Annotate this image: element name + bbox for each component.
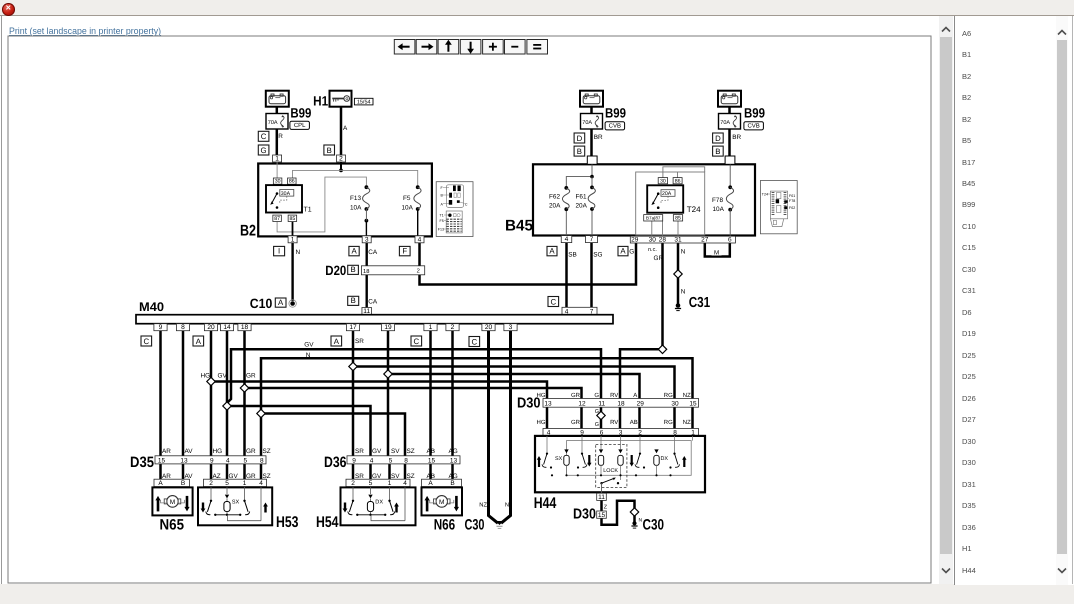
svg-text:27: 27: [701, 237, 709, 244]
svg-text:15: 15: [598, 512, 606, 519]
relay T24: [647, 185, 683, 212]
svg-text:GR: GR: [246, 373, 256, 380]
svg-text:HG: HG: [201, 373, 211, 380]
svg-text:5: 5: [225, 480, 229, 487]
wire CA (B2 pin 3 through D20 pin 18 to M40 pin 11): [366, 243, 368, 308]
connector marker A: [349, 246, 359, 255]
svg-text:B99: B99: [605, 105, 626, 120]
wire M loop (B45 pin 27 to pin 6): [705, 243, 730, 257]
T24 relay sub-box and wiring: [636, 167, 705, 236]
svg-text:8: 8: [181, 324, 185, 331]
connector marker C: [258, 131, 269, 141]
relay T24 pin 30: [658, 178, 667, 185]
main vertical scrollbar: [939, 16, 953, 584]
svg-text:5: 5: [369, 480, 373, 487]
wire (D36 to actuator, x=452.5): [451, 464, 454, 488]
svg-text:n.c.: n.c.: [648, 247, 657, 253]
wire RG (D30 to H44): [673, 407, 676, 429]
svg-text:B: B: [715, 147, 720, 156]
svg-text:GR: GR: [246, 448, 256, 455]
connector marker F: [399, 246, 410, 255]
svg-text:F: F: [402, 247, 407, 256]
wire GR (M40 pin 18 to D35 pin 5): [243, 331, 246, 456]
svg-text:20: 20: [485, 324, 493, 331]
svg-text:70A: 70A: [582, 120, 592, 126]
connector D30 row: [543, 399, 699, 408]
svg-text:18: 18: [617, 400, 625, 407]
svg-text:A: A: [343, 125, 348, 132]
svg-text:D20: D20: [325, 263, 346, 278]
svg-text:F13: F13: [350, 195, 361, 202]
svg-text:1: 1: [388, 480, 392, 487]
svg-text:HG: HG: [537, 419, 546, 426]
svg-text:5: 5: [389, 457, 393, 464]
svg-text:SB: SB: [568, 252, 577, 259]
svg-text:D30: D30: [573, 507, 596, 523]
svg-text:C: C: [550, 297, 556, 306]
relay T1 pin 30: [273, 178, 282, 185]
window switch H53: [198, 487, 272, 525]
svg-text:31: 31: [674, 237, 682, 244]
connector marker I: [274, 246, 285, 255]
svg-text:C31: C31: [689, 295, 711, 311]
svg-text:AZ: AZ: [213, 473, 221, 480]
svg-text:SZ: SZ: [407, 473, 415, 480]
svg-text:A: A: [633, 392, 637, 399]
svg-text:14: 14: [223, 324, 231, 331]
svg-text:D: D: [577, 134, 583, 143]
svg-text:I: I: [278, 247, 280, 256]
N66 terminal strip A/B: [422, 479, 462, 487]
svg-text:13: 13: [180, 457, 188, 464]
svg-text:17: 17: [349, 324, 357, 331]
svg-text:2: 2: [209, 480, 213, 487]
junction pin19 bus: [384, 370, 392, 378]
svg-text:A: A: [351, 247, 357, 256]
wire (D35 to actuator, x=227): [226, 464, 229, 488]
svg-text:F78: F78: [712, 197, 723, 204]
svg-text:SX: SX: [555, 456, 563, 462]
svg-text:LOCK: LOCK: [603, 468, 618, 474]
svg-text:1: 1: [291, 236, 295, 243]
svg-text:RV: RV: [610, 392, 618, 399]
terminal 11 on M40 (from D20): [362, 308, 372, 316]
B45 top terminal notch right: [725, 156, 735, 164]
svg-text:NZ: NZ: [683, 419, 691, 426]
svg-text:SV: SV: [391, 448, 400, 455]
svg-text:H54: H54: [316, 514, 339, 531]
bottom gray strip: [0, 584, 1074, 604]
svg-text:4: 4: [259, 480, 263, 487]
svg-text:A: A: [620, 247, 626, 256]
wire (D35 to actuator, x=244.5): [243, 464, 246, 488]
svg-text:GV: GV: [372, 473, 382, 480]
svg-text:SZ: SZ: [407, 448, 415, 455]
svg-text:G: G: [595, 422, 599, 428]
svg-text:1: 1: [429, 324, 433, 331]
wire BR (B99 CVB left to B45): [590, 107, 593, 158]
svg-text:SZ: SZ: [263, 473, 271, 480]
connector marker D: [713, 133, 724, 143]
wire SG (B45 pin 7 to M40 pin 7): [590, 243, 593, 308]
svg-text:87: 87: [274, 216, 280, 222]
svg-text:H1: H1: [313, 94, 328, 109]
relay T1 pin 85: [288, 215, 297, 222]
net bus (GV diamond to D36 pin 4): [227, 406, 371, 456]
svg-text:CPL: CPL: [294, 122, 306, 129]
svg-text:85: 85: [675, 216, 681, 222]
wire Z (H44 pin 11 through D30 pin 15 to ground C30): [602, 500, 635, 525]
junction HG bus: [207, 377, 215, 385]
svg-text:15/54: 15/54: [357, 100, 371, 106]
wire SZ (D35 pin 8 to H53 pin 4): [260, 464, 263, 488]
svg-text:18: 18: [241, 324, 249, 331]
svg-text:N: N: [505, 503, 509, 509]
junction SR bus: [349, 362, 357, 370]
net bus (N diamond to D36 pin 8): [261, 414, 405, 456]
ground point C10: [290, 301, 295, 306]
svg-text:RV: RV: [610, 419, 618, 426]
svg-text:B: B: [450, 480, 454, 487]
svg-text:A: A: [196, 337, 202, 346]
svg-text:1: 1: [243, 480, 247, 487]
B2 bottom pin 1: [288, 236, 297, 244]
H53 terminal strip 2/5/1/4: [204, 479, 267, 487]
relay T24 pins B7a/87: [644, 215, 663, 221]
svg-text:10A: 10A: [402, 205, 414, 212]
svg-text:N: N: [681, 289, 686, 296]
svg-text:5: 5: [243, 457, 247, 464]
svg-text:C: C: [261, 132, 267, 141]
svg-text:AV: AV: [185, 473, 194, 480]
svg-text:M40: M40: [139, 300, 164, 314]
N65 terminal strip A/B: [154, 479, 190, 487]
title bar: [0, 0, 1074, 16]
svg-text:3: 3: [509, 324, 513, 331]
connector marker A: [331, 336, 342, 346]
svg-text:T1: T1: [440, 213, 444, 217]
svg-text:G: G: [594, 392, 599, 399]
terminal box 4/7 on M40: [562, 307, 597, 315]
M40 pin 2: [446, 324, 459, 332]
fuse 70A (B99 CVB left): [581, 114, 603, 130]
wire AB (M40 pin 1 to D36 pin 15): [429, 331, 432, 456]
svg-text:30: 30: [660, 178, 666, 184]
svg-text:F62: F62: [549, 194, 560, 201]
svg-text:HG: HG: [213, 448, 223, 455]
svg-text:29: 29: [631, 237, 639, 244]
wire N (M40/C pin 3 to ground C30): [501, 331, 510, 524]
svg-text:CA: CA: [368, 249, 378, 256]
svg-text:SV: SV: [391, 473, 400, 480]
svg-text:2: 2: [417, 268, 420, 275]
wire R (B99 fuse to B2 pin 1): [276, 107, 279, 156]
M40 pin 14: [220, 324, 233, 332]
ground stud C30 (H44): [632, 521, 636, 525]
svg-text:B2: B2: [240, 223, 256, 240]
svg-text:20A: 20A: [549, 203, 561, 210]
M40 pin 18: [238, 324, 251, 332]
svg-text:85: 85: [290, 216, 296, 222]
svg-text:N66: N66: [434, 517, 456, 534]
net GR bus (M40 pin 18 to D30 pin 12): [245, 388, 582, 399]
svg-text:13: 13: [450, 457, 458, 464]
wire BR (B99 CVB right to B45): [728, 107, 731, 158]
window left border: [1, 16, 2, 584]
svg-text:C30: C30: [465, 517, 485, 534]
wire (D36 to actuator, x=370.5): [369, 464, 372, 488]
svg-text:6: 6: [728, 237, 732, 244]
svg-text:F61: F61: [576, 194, 587, 201]
connector marker B: [348, 296, 359, 305]
svg-text:30: 30: [671, 400, 679, 407]
relay T24 pin 86: [673, 178, 682, 185]
connector marker G: [258, 145, 269, 155]
svg-text:4: 4: [418, 236, 422, 243]
M40 pin 9: [154, 324, 167, 332]
svg-text:4: 4: [403, 480, 407, 487]
right component list panel: [954, 16, 1074, 585]
svg-text:M: M: [170, 499, 175, 506]
M40 pin 1: [424, 324, 437, 332]
B2 internal wiring: [277, 162, 418, 236]
connector D35 row: [155, 456, 266, 465]
svg-text:A: A: [549, 247, 555, 256]
bus bar M40: [136, 315, 613, 324]
svg-text:B: B: [181, 480, 185, 487]
wire SB (B45 pin 4 to M40 pin 4): [565, 243, 568, 308]
svg-text:D: D: [715, 134, 721, 143]
svg-text:AR: AR: [162, 473, 171, 480]
connector marker C: [141, 336, 152, 346]
svg-text:A: A: [334, 337, 340, 346]
label CVB: [605, 122, 625, 130]
connector D30 pin 15: [597, 511, 607, 519]
connector H44 row: [543, 429, 699, 437]
svg-text:T24: T24: [762, 193, 768, 197]
B45 pin legend table: [760, 181, 797, 234]
net SR bus (M40 pin 17 to D30 pin 30): [353, 367, 675, 399]
svg-text:B99: B99: [744, 105, 765, 120]
svg-text:1: 1: [275, 156, 279, 163]
svg-text:4: 4: [370, 457, 374, 464]
svg-text:28: 28: [659, 237, 667, 244]
svg-text:F62: F62: [789, 206, 795, 210]
svg-text:29: 29: [637, 400, 645, 407]
toolbar buttons: [394, 40, 547, 55]
svg-text:GV: GV: [372, 448, 382, 455]
svg-text:SG: SG: [593, 252, 602, 259]
svg-text:GR: GR: [571, 392, 581, 399]
svg-text:N: N: [296, 249, 301, 256]
M40 pin 20: [482, 324, 495, 332]
svg-text:11: 11: [598, 400, 605, 407]
wire (B2 pin 4 through D20 pin 2 to B45 pin 29): [420, 243, 637, 285]
connector marker C (M40 4/7): [548, 297, 559, 307]
svg-text:GR: GR: [571, 419, 581, 426]
svg-text:C: C: [471, 337, 477, 346]
wire HG (M40 pin 20 to D35 pin 9): [210, 331, 213, 456]
H44 internals: [537, 436, 693, 493]
wire label M on loop: [712, 248, 722, 257]
svg-text:F5: F5: [403, 195, 411, 202]
svg-text:M: M: [439, 499, 444, 506]
svg-text:RG: RG: [664, 392, 673, 399]
wire HG (D30 to H44): [546, 407, 549, 429]
connector marker C: [411, 336, 422, 346]
B2 bottom pin 4: [415, 236, 424, 244]
svg-text:F61: F61: [789, 194, 795, 198]
fuse 70A (B99 CPL): [266, 114, 288, 130]
connector D36 row: [347, 456, 460, 465]
connector marker A (B45 pin29 wire): [618, 246, 628, 255]
svg-text:70A: 70A: [268, 120, 278, 126]
label 15/54: [354, 98, 373, 105]
svg-text:C: C: [143, 337, 149, 346]
connector marker A: [275, 298, 286, 307]
wire (D36 to actuator, x=353): [352, 464, 355, 488]
M40 pin 20: [204, 324, 217, 332]
net bus (M40 pin 19 to D30 pin 29): [388, 374, 640, 399]
svg-text:18: 18: [363, 268, 369, 275]
M40 pin 3: [504, 324, 517, 332]
connector marker B: [324, 145, 335, 155]
svg-text:NZ: NZ: [479, 503, 487, 509]
B2 top pin 2: [337, 155, 346, 163]
svg-text:C: C: [465, 202, 468, 206]
wire G (D30 to H44): [600, 407, 603, 429]
svg-text:20: 20: [207, 324, 215, 331]
svg-text:15: 15: [158, 457, 166, 464]
svg-text:8: 8: [404, 457, 408, 464]
svg-text:13: 13: [544, 400, 552, 407]
label CPL: [290, 121, 310, 129]
wire N (B45 pin 31 to ground C31): [677, 243, 680, 304]
relay T24 pin 85: [673, 215, 682, 222]
svg-text:AG: AG: [449, 448, 458, 455]
svg-text:86: 86: [289, 179, 295, 185]
B2 bottom pin 3: [362, 236, 371, 244]
connector marker D: [574, 133, 585, 143]
svg-text:15: 15: [689, 400, 697, 407]
wire (D36 to actuator, x=430.5): [429, 464, 432, 488]
wire AR (M40 pin 9 to D35 pin 15): [159, 331, 162, 456]
svg-text:86: 86: [675, 178, 681, 184]
B45 bottom pin 7: [586, 236, 598, 244]
svg-text:T1: T1: [304, 207, 312, 214]
wire NZ (M40/C pin 20 to ground C30): [489, 331, 498, 524]
fuse F5 10A: [416, 185, 420, 189]
connector marker A: [193, 336, 204, 346]
window motor N66: [422, 487, 463, 515]
svg-text:B: B: [327, 146, 332, 155]
svg-text:3: 3: [365, 236, 369, 243]
wire AB (D30 to H44): [638, 407, 641, 429]
svg-text:AB: AB: [427, 473, 436, 480]
svg-text:G: G: [629, 249, 634, 256]
B45 internal wiring left: [566, 164, 594, 236]
wire (D35 to actuator, x=160.5): [159, 464, 162, 488]
wire (D35 to actuator, x=183): [182, 464, 185, 488]
svg-text:C10: C10: [250, 296, 272, 311]
M40 pin 17: [346, 324, 359, 332]
svg-text:A: A: [428, 480, 433, 487]
svg-text:SX: SX: [232, 500, 240, 506]
svg-text:AV: AV: [185, 448, 194, 455]
svg-text:19: 19: [384, 324, 392, 331]
wire SR (M40 pin 17 to D36 pin 9): [352, 331, 355, 456]
junction GV bus: [223, 402, 231, 410]
svg-text:C30: C30: [643, 517, 665, 534]
svg-text:SZ: SZ: [263, 448, 271, 455]
H54 terminal strip 2/5/1/4: [346, 479, 410, 487]
svg-text:15: 15: [428, 457, 436, 464]
window switch unit H44: [535, 436, 705, 492]
svg-text:4: 4: [226, 457, 230, 464]
svg-text:D30: D30: [517, 395, 541, 411]
svg-text:10A: 10A: [713, 206, 725, 213]
svg-text:N: N: [306, 352, 311, 359]
svg-text:20A: 20A: [662, 191, 672, 197]
battery B99 (middle, CVB): [580, 91, 603, 107]
net N bus (D35 pin 8 / D36 pin 8 / D30 pin 15): [261, 358, 693, 456]
junction unit B45: [533, 164, 755, 235]
M40 pin 8: [176, 324, 189, 332]
svg-text:B7a|87: B7a|87: [646, 216, 661, 221]
svg-text:30A: 30A: [281, 191, 291, 197]
relay T1: [266, 185, 302, 212]
connector marker A (B45 pin4 wire): [547, 246, 557, 255]
print link: [9, 26, 161, 36]
H44 pin 11: [597, 493, 607, 501]
diagram sheet frame: [8, 36, 931, 583]
connector marker B: [574, 146, 585, 156]
right panel scrollbar: [1056, 16, 1068, 585]
net HG bus (M40 pin 20 to D30 pin 13): [211, 382, 547, 399]
svg-text:B: B: [351, 296, 356, 305]
fuse F61 20A: [590, 186, 594, 190]
svg-text:AG: AG: [449, 473, 458, 480]
svg-text:CVB: CVB: [747, 123, 759, 130]
wire GV (M40 pin 14 to D35 pin 4): [226, 331, 229, 456]
svg-text:B: B: [350, 265, 355, 274]
svg-text:20A: 20A: [576, 203, 588, 210]
svg-text:R: R: [278, 133, 283, 140]
wire SV (M40 pin 19 to D36 pin 5): [387, 331, 390, 456]
window switch H54: [341, 487, 416, 525]
svg-text:CVB: CVB: [609, 123, 621, 130]
close button: [2, 3, 15, 16]
junction GR/RV wire: [658, 345, 666, 353]
wire (D36 to actuator, x=389.5): [388, 464, 391, 488]
label CVB: [744, 122, 764, 130]
junction G wire D30/H44: [597, 411, 605, 419]
svg-text:4: 4: [565, 236, 569, 243]
wire GR (D30 to H44): [580, 407, 583, 429]
connector marker B: [713, 146, 724, 156]
wire (D35 to actuator, x=211): [210, 464, 213, 488]
battery B99 (right, CVB): [718, 91, 741, 107]
junction (inline connector) on N wire to C31: [674, 270, 682, 278]
relay T1 pin 87: [273, 215, 282, 222]
svg-text:B: B: [577, 147, 582, 156]
svg-text:NZ: NZ: [683, 392, 691, 399]
svg-text:A: A: [278, 298, 284, 307]
svg-text:H53: H53: [276, 514, 299, 531]
svg-text:B45: B45: [505, 218, 533, 235]
svg-text:12: 12: [578, 400, 586, 407]
wire AG (M40 pin 2 to D36 pin 13): [451, 331, 454, 456]
